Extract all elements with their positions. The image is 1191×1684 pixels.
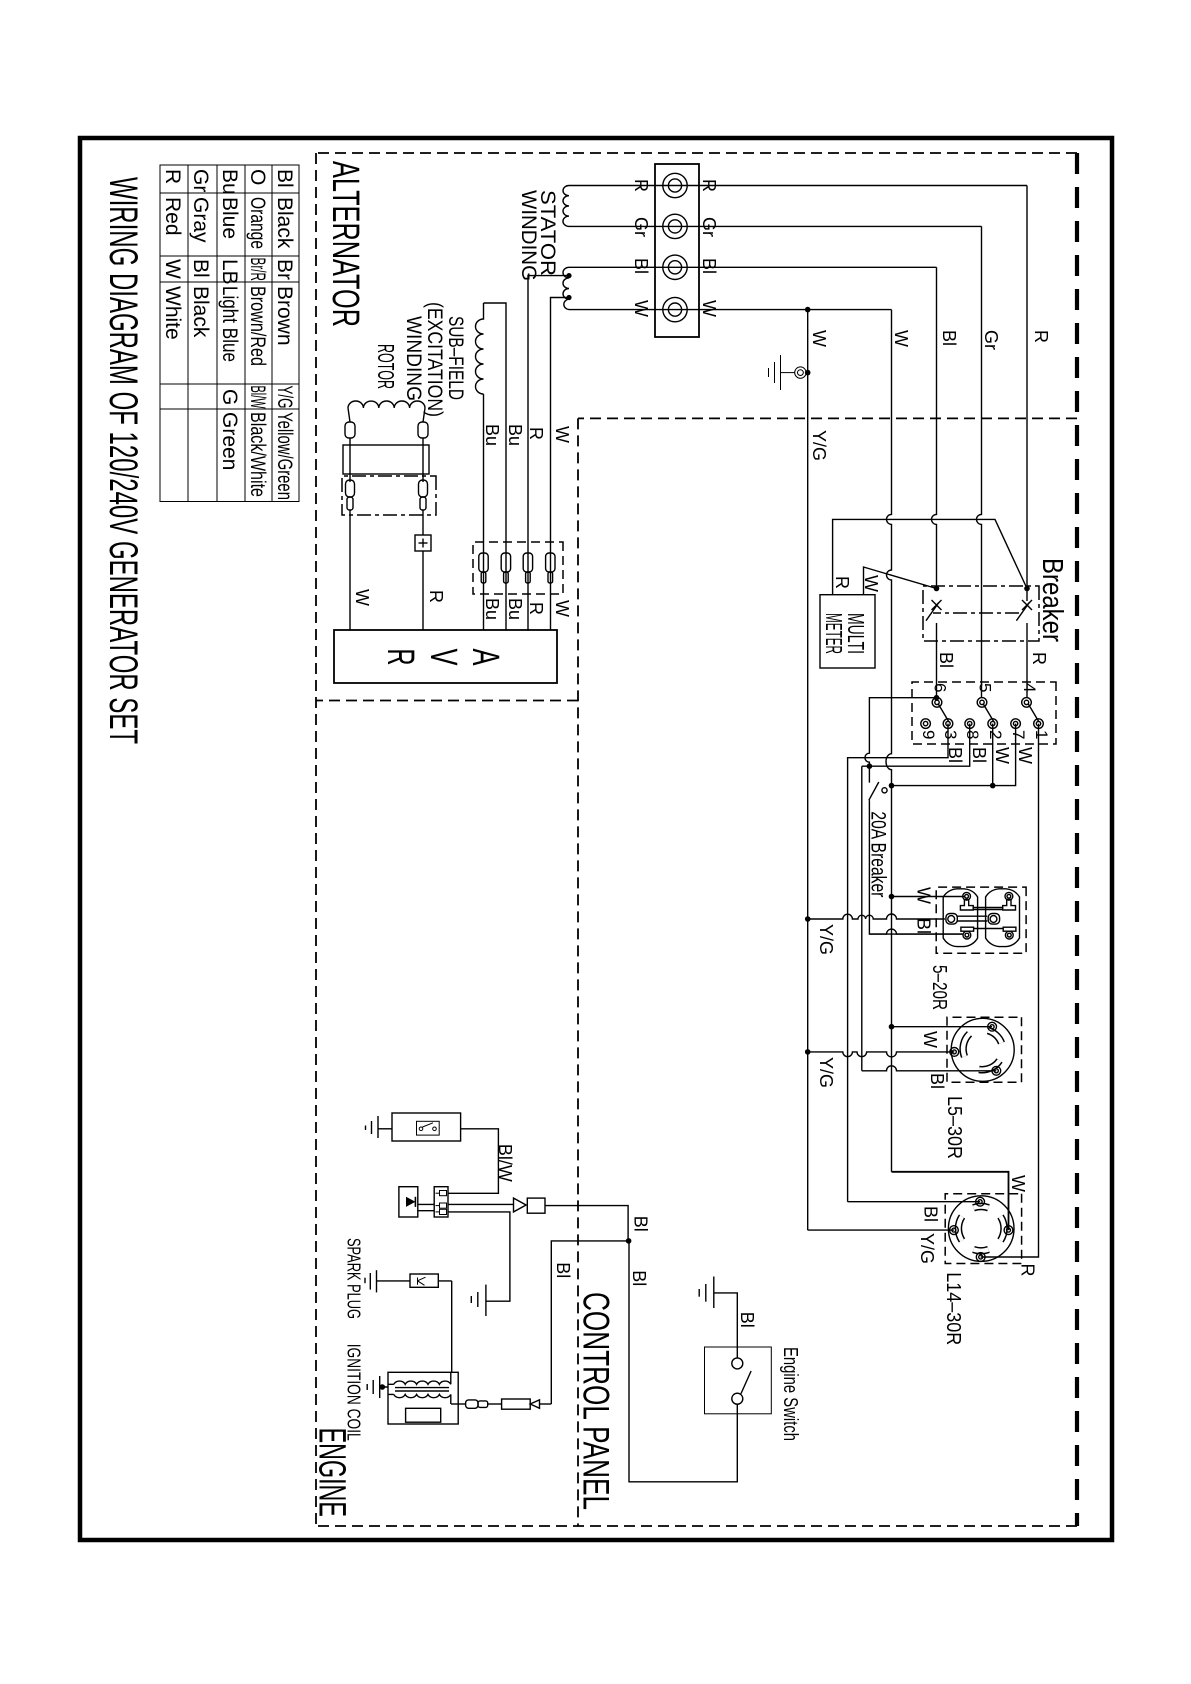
ignition coil primary winding	[394, 1394, 451, 1397]
rotor terminal bottom	[345, 422, 355, 438]
5-20R link strap middle	[957, 916, 987, 921]
brush holder box	[342, 476, 436, 515]
wire slip ring top	[422, 438, 424, 482]
svg-text:Black: Black	[189, 286, 212, 338]
L14-30R circle	[948, 1196, 1014, 1262]
terminal W on strip	[663, 297, 687, 321]
wire resistor to connector	[488, 1403, 502, 1405]
receptacle 5-20R outline box	[936, 887, 1026, 953]
wire HT lead	[377, 1280, 452, 1282]
border frame	[80, 138, 1112, 1540]
svg-text:W: W	[1015, 747, 1035, 764]
block pin 9	[921, 719, 931, 729]
svg-text:Bu: Bu	[505, 424, 525, 446]
chassis ground at Y/G	[769, 355, 807, 390]
svg-text:Bl: Bl	[699, 258, 719, 274]
rotor terminal top	[418, 422, 428, 438]
5-20R link strap top	[973, 908, 1003, 910]
block pin 3	[943, 719, 953, 729]
wire sub-field R	[528, 276, 569, 630]
svg-text:W: W	[891, 330, 911, 347]
wire 5-20R W feed	[892, 896, 966, 898]
wire engine switch to ground	[714, 1293, 738, 1358]
wire ignition coil common	[380, 1384, 394, 1394]
alternator dashed boundary left edge	[316, 152, 1077, 154]
svg-text:Bl: Bl	[914, 918, 934, 934]
svg-text:WIRING DIAGRAM OF 120/240V GEN: WIRING DIAGRAM OF 120/240V GENERATOR SET	[101, 177, 145, 744]
svg-text:Br/R: Br/R	[246, 258, 269, 282]
svg-text:W: W	[552, 426, 572, 443]
ground engine switch	[699, 1277, 714, 1309]
multi meter box	[820, 595, 875, 668]
svg-text:Br: Br	[273, 259, 296, 280]
wire Bl junction to ignition feed	[551, 1241, 628, 1404]
breaker pole R blade	[1016, 603, 1029, 621]
ignition coil secondary winding	[394, 1381, 451, 1384]
block pin 6	[932, 698, 942, 708]
junction dot Y/G tap	[805, 307, 811, 313]
svg-text:W: W	[809, 330, 829, 347]
svg-text:Gray: Gray	[189, 197, 212, 243]
rotor field coil	[348, 401, 425, 408]
svg-text:METER: METER	[821, 613, 847, 654]
5-20R top outlet screw neutral	[1005, 931, 1013, 939]
svg-text:Bl: Bl	[629, 1270, 649, 1286]
5-20R bottom outlet slot bar	[961, 927, 974, 931]
5-20R link strap bottom	[974, 928, 1004, 930]
svg-text:W: W	[914, 887, 934, 904]
oil level switch box	[392, 1113, 461, 1141]
wire breaker Bl output	[936, 623, 938, 698]
junction dot ignition ground	[380, 1384, 386, 1390]
svg-text:IGNITION COIL: IGNITION COIL	[344, 1344, 364, 1441]
dashed boundary alternator/control panel	[578, 417, 1077, 419]
breaker box	[923, 586, 1039, 641]
junction dot sub-field W tap	[566, 295, 571, 300]
svg-text:R: R	[1029, 652, 1049, 665]
stator winding coil 2	[563, 267, 569, 309]
wire sub-field W	[551, 298, 570, 631]
diode symbol	[406, 1197, 415, 1207]
svg-text:R: R	[1031, 330, 1051, 343]
wire color legend table	[160, 165, 299, 502]
svg-text:Y/G: Y/G	[809, 430, 829, 461]
svg-text:WINDING: WINDING	[517, 190, 540, 281]
20A breaker blade	[869, 782, 887, 800]
svg-text:6: 6	[931, 683, 950, 692]
wire sub-field Bu upper	[484, 303, 507, 630]
svg-text:Bl: Bl	[273, 169, 296, 188]
AVR box	[334, 630, 557, 683]
svg-text:Bl: Bl	[927, 1073, 947, 1089]
svg-text:Bl/W: Bl/W	[246, 386, 269, 409]
svg-text:V: V	[422, 649, 464, 666]
svg-text:SUB–FIELD: SUB–FIELD	[444, 316, 467, 400]
breaker pole Bl contact x	[932, 600, 942, 610]
svg-text:Bl: Bl	[630, 1216, 650, 1232]
wire 5-20R YG feed	[808, 914, 945, 919]
wire plus box to AVR R	[422, 551, 424, 630]
svg-text:20A Breaker: 20A Breaker	[866, 811, 889, 897]
wire slip ring bottom	[349, 438, 351, 482]
5-20R top outlet slot bar	[1003, 927, 1016, 931]
block pin 4	[1022, 698, 1032, 708]
svg-text:ROTOR: ROTOR	[373, 344, 399, 389]
svg-text:Bu: Bu	[505, 598, 525, 620]
terminal strip	[655, 164, 699, 337]
wire pin2 W	[992, 724, 994, 786]
svg-text:Bl: Bl	[920, 1206, 940, 1222]
svg-text:SPARK PLUG: SPARK PLUG	[344, 1238, 364, 1319]
ignition coil inner rect	[406, 1408, 441, 1422]
engine switch blade	[741, 1371, 751, 1394]
svg-text:W: W	[1008, 1175, 1028, 1192]
block pin 2	[988, 719, 998, 729]
svg-text:W: W	[631, 300, 651, 317]
wire multimeter W	[864, 567, 937, 595]
wire oil switch Bl/W	[448, 1129, 498, 1194]
L14-30R screw YG	[950, 1226, 959, 1235]
svg-text:Black: Black	[273, 197, 296, 249]
ground ignition coil	[367, 1376, 380, 1398]
svg-text:Blue: Blue	[218, 197, 241, 239]
svg-text:W: W	[161, 259, 184, 279]
svg-text:ALTERNATOR: ALTERNATOR	[324, 161, 366, 327]
wire sub-field Bu lower	[483, 394, 485, 630]
wire oil switch stem	[378, 1128, 392, 1130]
svg-text:Orange: Orange	[246, 197, 269, 249]
svg-text:Brown: Brown	[273, 286, 296, 346]
5-20R bottom outlet slot T1	[960, 899, 973, 910]
receptacle L5-30R outline box	[947, 1017, 1022, 1082]
connector pin Bu2	[479, 553, 488, 583]
ground oil switch	[366, 1116, 379, 1138]
stator winding coil 1	[563, 186, 569, 227]
wire connector to CDI unit	[448, 1203, 514, 1205]
junction dot pin6 branch	[934, 695, 940, 701]
connector pin Bu	[501, 553, 510, 583]
connector pin W	[546, 553, 555, 583]
junction dot 5-20R YG feed	[805, 916, 811, 922]
L5-30R screw Bl	[992, 1066, 1001, 1075]
bullet connector piece 1	[478, 1401, 488, 1408]
wire L14-30R W feed	[892, 1172, 1009, 1230]
svg-text:R: R	[161, 169, 184, 184]
wire coil secondary to HT lead	[450, 1281, 453, 1404]
5-20R outlet bottom	[943, 889, 977, 947]
junction dot breaker Bl input	[934, 586, 940, 592]
5-20R outlet top	[986, 889, 1020, 947]
wire diode to connector a	[418, 1203, 434, 1205]
terminal block box	[912, 682, 1056, 744]
wire rotor bottom end	[348, 408, 350, 422]
svg-text:Y/G: Y/G	[917, 1233, 937, 1264]
svg-text:Bl/W: Bl/W	[495, 1144, 515, 1182]
svg-text:Bu: Bu	[482, 598, 502, 620]
dashed boundary alternator/engine	[316, 700, 578, 702]
L14-30R screw Bl	[976, 1197, 985, 1206]
junction dot 5-20R W feed	[889, 894, 895, 900]
svg-text:Bl: Bl	[737, 1312, 757, 1328]
svg-text:7: 7	[1009, 730, 1028, 739]
svg-text:Green: Green	[218, 412, 241, 470]
svg-text:W: W	[552, 600, 572, 617]
wire rotor top end	[423, 408, 425, 422]
wire pin7 W	[892, 724, 1016, 786]
block pin 1	[1034, 719, 1044, 729]
svg-text:3: 3	[941, 730, 960, 739]
svg-text:Black/White: Black/White	[246, 412, 269, 497]
svg-text:W: W	[920, 1031, 940, 1048]
junction dot L5-30R YG feed	[805, 1049, 811, 1055]
wire 5-20R Bl feed	[869, 929, 962, 934]
oil level switch inner box	[417, 1121, 440, 1135]
block pin 8	[965, 719, 975, 729]
ignition coil box	[388, 1372, 458, 1424]
wire Y/G bus	[807, 310, 809, 1231]
block pin 7	[1011, 719, 1021, 729]
5-20R top outlet screw hot	[1005, 892, 1013, 900]
svg-text:White: White	[161, 286, 184, 340]
brush bottom	[346, 480, 355, 510]
svg-text:4: 4	[1020, 683, 1039, 692]
svg-text:Red: Red	[161, 197, 184, 236]
svg-text:Bl: Bl	[939, 330, 959, 346]
svg-text:W: W	[992, 747, 1012, 764]
CDI unit box	[527, 1198, 545, 1213]
svg-text:R: R	[526, 427, 546, 440]
svg-text:Bl: Bl	[969, 747, 989, 763]
engine connector pin a	[436, 1191, 447, 1196]
junction dot pin8 joins Bl branch	[867, 763, 873, 769]
junction dot Bl engine node	[626, 1238, 632, 1244]
trigger arrow triangle	[530, 1400, 539, 1409]
slip rings	[343, 445, 429, 474]
engine switch terminal 2	[732, 1393, 743, 1404]
svg-text:Y/G: Y/G	[816, 1057, 836, 1088]
svg-text:Bl: Bl	[945, 747, 965, 763]
right dashed boundary (control panel+engine)	[316, 1525, 1077, 1527]
svg-text:WINDING: WINDING	[402, 316, 425, 401]
svg-text:Breaker: Breaker	[1036, 558, 1068, 642]
svg-text:Gr: Gr	[981, 330, 1001, 350]
svg-text:O: O	[246, 169, 269, 185]
wire L5-30R YG feed	[808, 1052, 955, 1057]
junction dot breaker R input	[1024, 586, 1030, 592]
junction dot W bus at 20A	[889, 783, 895, 789]
top heavy dashed boundary	[1075, 153, 1079, 1526]
wire brush W to AVR	[349, 510, 351, 630]
wire pin8 Bl	[862, 724, 970, 1071]
5-20R top outlet slot T1	[1003, 899, 1016, 910]
svg-text:Bl: Bl	[936, 652, 956, 668]
svg-text:W: W	[352, 589, 372, 606]
wire R bus	[1026, 186, 1028, 602]
wire connector to ignition coil	[451, 1403, 466, 1405]
ground CDI connector	[471, 1285, 486, 1316]
plus terminal box	[415, 535, 431, 551]
5-20R bottom outlet screw hot	[963, 892, 971, 900]
breaker tie bar	[933, 612, 1019, 614]
engine connector pin c	[436, 1209, 447, 1214]
L5-30R screw YG	[950, 1048, 959, 1057]
engine switch terminal 1	[732, 1358, 743, 1369]
svg-text:(EXCITATION): (EXCITATION)	[423, 302, 446, 417]
wire L14-30R Bl feed	[848, 1201, 981, 1203]
CDI trigger triangle	[514, 1198, 527, 1212]
svg-text:Gr: Gr	[189, 169, 212, 192]
L5-30R slot arcs	[963, 1031, 1001, 1070]
svg-text:Y/G: Y/G	[273, 386, 296, 409]
svg-text:R: R	[526, 602, 546, 615]
blade pin6 to pin3	[938, 704, 949, 723]
wire Gr bus	[977, 226, 982, 697]
HT diode box	[410, 1274, 438, 1287]
block pin 5	[977, 698, 987, 708]
pulse diode box	[399, 1187, 418, 1217]
engine connector pin b	[436, 1203, 447, 1208]
wire W bus	[886, 310, 892, 1172]
wire connector ground branch	[448, 1212, 510, 1301]
receptacle L14-30R outline box	[945, 1194, 1021, 1264]
svg-text:Y/G: Y/G	[816, 924, 836, 955]
svg-text:W: W	[861, 575, 881, 592]
5-20R bottom outlet ground D	[946, 914, 957, 925]
svg-text:5–20R: 5–20R	[928, 965, 950, 1010]
L5-30R screw W	[988, 1022, 997, 1031]
wire L5-30R Bl feed	[862, 1066, 997, 1071]
junction dot ground tap	[805, 370, 811, 376]
brush top	[419, 480, 428, 510]
legend row Bl Black / Br Brown / Y/G Yellow/Green	[161, 169, 296, 500]
connector pin R	[523, 553, 532, 583]
wire stator R riser	[569, 185, 1027, 187]
svg-text:2: 2	[986, 730, 1005, 739]
svg-text:LB: LB	[218, 259, 241, 285]
svg-text:Brown/Red: Brown/Red	[246, 286, 269, 366]
noise suppressor resistor	[502, 1399, 531, 1409]
terminal R on strip	[663, 173, 687, 197]
svg-text:Light Blue: Light Blue	[218, 286, 241, 362]
blade pin5 to pin2	[983, 704, 994, 723]
HT diode symbol K	[418, 1277, 426, 1285]
svg-text:L14–30R: L14–30R	[942, 1272, 964, 1345]
svg-text:L5–30R: L5–30R	[943, 1096, 965, 1159]
svg-text:1: 1	[1032, 730, 1051, 739]
wire Bl bus	[932, 267, 937, 588]
terminal Gr on strip	[663, 214, 687, 238]
L5-30R circle	[951, 1018, 1014, 1081]
terminal Bl on strip	[663, 255, 687, 279]
wire L5-30R W feed	[892, 1026, 993, 1028]
svg-text:Bu: Bu	[482, 424, 502, 446]
engine connector box	[434, 1187, 448, 1217]
svg-text:W: W	[699, 300, 719, 317]
oil switch contacts	[419, 1123, 436, 1131]
breaker pole R contact x	[1022, 600, 1032, 610]
ignition trigger chain wire	[540, 1403, 552, 1405]
wire pin1 R feed	[981, 724, 1039, 1257]
wire CDI to Bl junction	[545, 1206, 628, 1241]
svg-text:CONTROL PANEL: CONTROL PANEL	[576, 1292, 617, 1510]
junction dot sub-field R tap	[566, 273, 571, 278]
engine switch box	[705, 1347, 772, 1414]
sub-field excitation winding coil	[476, 303, 484, 394]
svg-text:ENGINE: ENGINE	[311, 1428, 353, 1517]
bottom dashed boundary (alternator+engine)	[315, 153, 317, 1526]
L14-30R screw R	[976, 1253, 985, 1262]
spark plug electrode	[365, 1270, 377, 1292]
dashed boundary control panel/engine top	[577, 418, 579, 1526]
svg-text:Bu: Bu	[218, 169, 241, 195]
blade pin4 to pin1	[1028, 704, 1039, 723]
svg-text:Engine Switch: Engine Switch	[779, 1347, 801, 1441]
svg-text:A: A	[464, 649, 506, 666]
wire Bl branch pin6 to 20A breaker	[865, 698, 963, 934]
svg-text:R: R	[426, 590, 446, 603]
svg-text:G: G	[218, 389, 241, 405]
wire pin3 Bl	[848, 724, 948, 1202]
svg-text:9: 9	[919, 730, 938, 739]
wire stator W riser	[569, 309, 892, 311]
wire stator Bl riser	[569, 266, 937, 268]
ignition coil core	[395, 1388, 449, 1391]
svg-text:Bl: Bl	[189, 259, 212, 278]
svg-text:R: R	[832, 576, 852, 589]
wire diode to connector b	[418, 1210, 434, 1212]
svg-text:Bl: Bl	[553, 1262, 573, 1278]
breaker pole Bl blade	[926, 603, 939, 621]
wire multimeter R	[833, 519, 1027, 594]
svg-text:Bl: Bl	[631, 258, 651, 274]
wire L14-30R YG feed	[808, 1229, 954, 1231]
junction dot L5-30R W feed	[889, 1024, 895, 1030]
wire breaker R output	[1026, 623, 1028, 698]
svg-text:8: 8	[963, 730, 982, 739]
wire brush R to plus box	[422, 510, 424, 535]
L14-30R screw W	[1004, 1226, 1013, 1235]
L14-30R slot arcs	[958, 1206, 1004, 1250]
5-20R top outlet ground D	[988, 914, 999, 925]
svg-text:R: R	[379, 649, 421, 666]
svg-text:5: 5	[976, 683, 995, 692]
svg-text:Yellow/Green: Yellow/Green	[273, 412, 296, 500]
wire stator Gr riser	[569, 225, 982, 227]
bullet connector piece 2	[466, 1400, 478, 1408]
wire engine switch to Bl junction	[629, 1242, 737, 1482]
sub-field connector 4-pin	[473, 542, 563, 594]
svg-text:R: R	[1018, 1264, 1038, 1277]
junction dot pin2 joins	[990, 783, 996, 789]
5-20R bottom outlet screw neutral	[963, 931, 971, 939]
